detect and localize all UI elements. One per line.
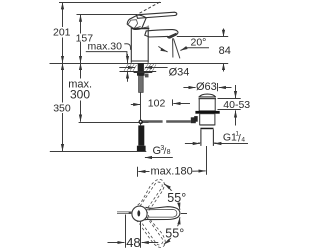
top view dashed handle down xyxy=(135,211,168,250)
svg-text:84: 84 xyxy=(219,45,231,57)
20 deg leader xyxy=(180,48,209,51)
spout xyxy=(145,30,178,38)
label 55 lower xyxy=(165,226,184,238)
tailpipe thread marks xyxy=(198,142,217,144)
Oe63 dimension xyxy=(183,81,231,93)
top view body circle xyxy=(132,206,147,221)
dimension max.300 xyxy=(68,63,92,122)
pop-up rod second segment xyxy=(166,120,191,122)
threaded rod xyxy=(139,76,144,93)
top view handle inner slot xyxy=(141,209,177,217)
svg-text:8: 8 xyxy=(167,149,171,156)
lever knob inner line xyxy=(128,20,141,29)
leader arrow into tailpipe xyxy=(185,143,200,145)
pop-up joint xyxy=(139,120,144,125)
extension line top of lever (201 reference) xyxy=(59,2,161,4)
dimension 201 xyxy=(53,2,71,63)
dimension 84 xyxy=(219,29,231,72)
dimension 40-53 xyxy=(223,85,250,126)
G3/8 leader xyxy=(145,157,173,159)
hose nut G3/8 xyxy=(137,146,146,152)
max.30 underline leader xyxy=(86,52,127,56)
cartridge joint xyxy=(143,26,148,31)
rod connector at drain xyxy=(191,117,196,123)
svg-text:48: 48 xyxy=(126,235,140,250)
tailpipe xyxy=(201,129,214,146)
dimension 48 xyxy=(108,215,159,250)
svg-text:350: 350 xyxy=(53,103,71,115)
body top edge xyxy=(132,28,149,30)
top view handle outline xyxy=(145,207,180,220)
max.30 curl xyxy=(124,44,130,50)
label G3/8 xyxy=(153,145,171,157)
svg-text:55°: 55° xyxy=(165,226,184,240)
dimension max.180 xyxy=(138,165,206,177)
svg-text:201: 201 xyxy=(53,27,71,39)
plug rim xyxy=(199,97,217,99)
water stream vertical line xyxy=(172,38,174,57)
extension line top of body (157 reference) xyxy=(77,14,138,16)
svg-text:4: 4 xyxy=(241,137,245,144)
shank nut xyxy=(137,73,145,76)
supply end reference line xyxy=(50,151,147,153)
svg-text:max.180: max.180 xyxy=(151,165,193,177)
max.300 reference line xyxy=(79,122,149,124)
drain nut xyxy=(200,124,215,126)
svg-text:40-53: 40-53 xyxy=(223,99,250,111)
svg-text:55°: 55° xyxy=(167,191,186,205)
svg-text:Ø63: Ø63 xyxy=(196,81,217,93)
lever knob xyxy=(127,15,146,30)
extension line aerator level (84 reference) xyxy=(177,36,228,38)
svg-text:max.30: max.30 xyxy=(88,40,123,52)
pop-up horizontal rod xyxy=(143,120,163,122)
rotation arc upper xyxy=(164,184,180,210)
label G1 1/4 xyxy=(223,131,246,145)
deck surface line xyxy=(50,63,229,65)
rotation arc lower xyxy=(164,217,180,244)
drain flange dome xyxy=(199,94,215,97)
max.30 arrow above deck xyxy=(127,54,129,63)
pop-up vertical rod xyxy=(140,92,142,125)
drain body xyxy=(200,114,215,125)
label 55 upper xyxy=(167,191,186,203)
top view dashed handle up xyxy=(135,177,168,216)
aerator wedge xyxy=(167,33,176,39)
deck underside line xyxy=(120,71,157,73)
mounting shank xyxy=(138,63,144,71)
water stream 20 deg line xyxy=(173,38,180,58)
40-53 extension lines xyxy=(218,98,241,100)
drain flange body xyxy=(199,99,215,111)
svg-text:300: 300 xyxy=(70,87,90,101)
washer under deck xyxy=(134,72,153,74)
max.30 arrow below deck xyxy=(127,71,129,82)
faucet base xyxy=(131,60,148,62)
lever blade xyxy=(137,12,177,18)
dimension 350 xyxy=(53,63,71,151)
dimension 157 xyxy=(76,15,94,63)
top view rear rod xyxy=(117,212,132,214)
rod guide bracket xyxy=(145,74,149,78)
deck hatching right xyxy=(145,64,157,71)
svg-text:20°: 20° xyxy=(191,36,207,48)
G1 1/4 leader underline xyxy=(214,143,248,145)
faucet body side view xyxy=(131,29,148,63)
seal band xyxy=(195,111,219,114)
drain centerline xyxy=(206,146,208,175)
svg-text:102: 102 xyxy=(148,98,166,110)
flexible hose xyxy=(138,125,144,145)
svg-text:Ø34: Ø34 xyxy=(169,66,190,78)
top view dot xyxy=(137,210,140,216)
20 deg arc arrow left xyxy=(158,46,167,52)
lever raised dashed xyxy=(140,2,161,13)
deck hatching left xyxy=(124,64,137,71)
drain left port xyxy=(194,116,198,122)
dimension 102 xyxy=(131,98,190,110)
Oe34 dimension xyxy=(119,66,189,78)
